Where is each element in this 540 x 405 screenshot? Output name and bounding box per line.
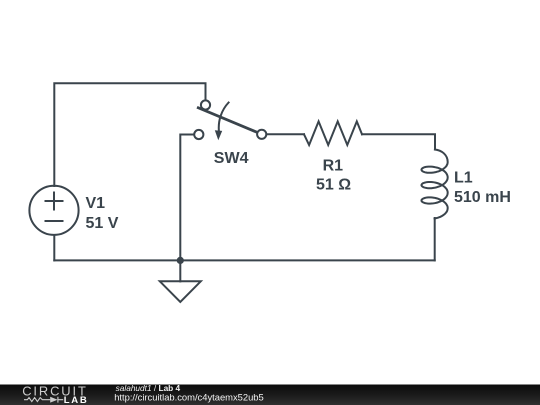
svg-text:LAB: LAB bbox=[64, 395, 89, 405]
svg-text:R1: R1 bbox=[323, 158, 344, 175]
switch SW4 throw1 contact circle bbox=[194, 130, 203, 139]
resistor R1 zigzag bbox=[304, 121, 362, 145]
wire inductor bottom to bottom-right corner bbox=[434, 218, 436, 260]
svg-text:51 V: 51 V bbox=[86, 215, 119, 232]
inductor L1 coil bbox=[422, 150, 448, 219]
switch SW4 throw2 contact circle bbox=[257, 130, 266, 139]
wire switch throw2 to resistor R1 left lead bbox=[267, 133, 304, 135]
CircuitLab logo diode triangle bbox=[50, 397, 57, 403]
svg-text:51 Ω: 51 Ω bbox=[316, 177, 351, 194]
footer black bar bbox=[0, 385, 540, 405]
CircuitLab logo resistor wire glyph bbox=[24, 397, 63, 403]
node junction dot at bottom rail bbox=[177, 257, 184, 264]
svg-text:V1: V1 bbox=[86, 195, 106, 212]
wire bottom rail bbox=[54, 259, 434, 261]
svg-text:SW4: SW4 bbox=[214, 150, 249, 167]
switch SW4 arrowhead bbox=[215, 130, 222, 140]
wire switch throw1 down to bottom node bbox=[180, 135, 194, 261]
switch SW4 blade bbox=[198, 108, 257, 133]
voltage source V1 circle bbox=[29, 186, 78, 235]
switch SW4 actuation arrow arc bbox=[219, 103, 229, 132]
wire V1 bottom lead bbox=[53, 235, 55, 260]
ground symbol triangle bbox=[160, 281, 201, 302]
svg-text:510 mH: 510 mH bbox=[454, 189, 511, 206]
svg-text:http://circuitlab.com/c4ytaemx: http://circuitlab.com/c4ytaemx52ub5 bbox=[114, 391, 264, 402]
V1 minus sign bbox=[46, 220, 63, 222]
svg-text:L1: L1 bbox=[454, 170, 473, 187]
V1 plus sign bbox=[46, 193, 63, 210]
ground symbol lead bbox=[179, 260, 181, 281]
wire resistor R1 right lead to top-right corner bbox=[362, 134, 435, 149]
switch SW4 common pole circle bbox=[201, 100, 210, 109]
wire top from V1 to switch common bbox=[54, 83, 205, 186]
